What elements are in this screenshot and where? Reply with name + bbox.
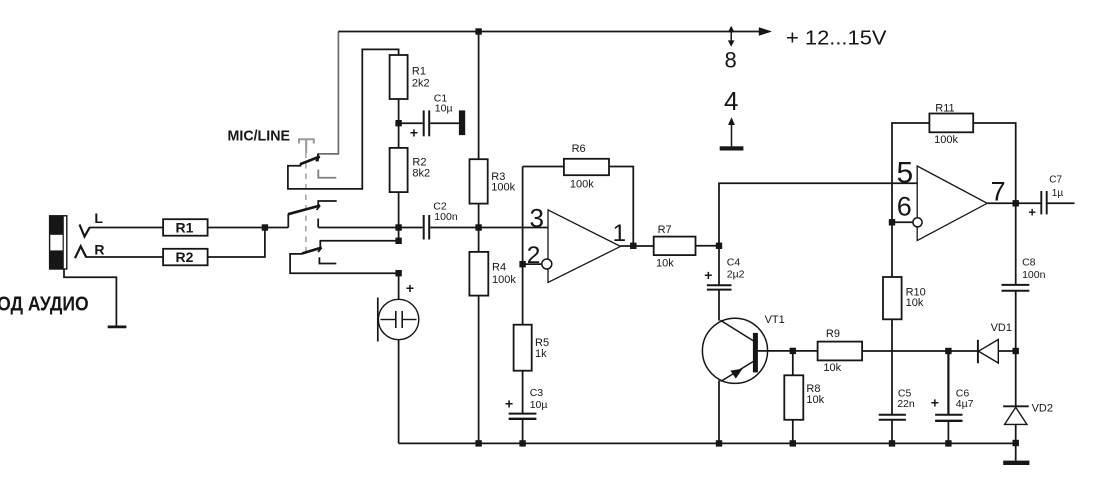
wire C4 to VT1 collector (718, 290, 720, 321)
svg-text:VD1: VD1 (991, 322, 1012, 334)
svg-text:10k: 10k (656, 257, 674, 269)
resistor R7 10k (654, 224, 696, 269)
resistor R10 10k (883, 222, 926, 319)
svg-text:+: + (1028, 204, 1036, 219)
svg-text:R7: R7 (658, 224, 672, 236)
switch SA1.2 (middle) upper throw stub (open) (318, 201, 337, 206)
switch SA1.2 arm (288, 206, 320, 215)
switch SA1 mechanical link (dashed) (305, 142, 307, 252)
svg-text:R5: R5 (535, 337, 549, 349)
resistor R6 100k feedback (523, 143, 634, 246)
node rail C3 (519, 440, 525, 446)
pin 8 supply arrow (725, 26, 737, 73)
node pin6 junction (889, 219, 895, 225)
svg-text:R6: R6 (572, 143, 586, 155)
switch SA1.1 arm (300, 156, 320, 164)
resistor R11 100k feedback (892, 102, 1016, 222)
capacitor C8 100n (1002, 257, 1046, 291)
node C2 junction (395, 224, 401, 230)
svg-text:+: + (406, 280, 414, 296)
bubble inverting input U1.2 (913, 218, 922, 227)
svg-text:100k: 100k (934, 134, 958, 146)
node R2 bottom junction (395, 238, 401, 244)
svg-text:10µ: 10µ (530, 399, 548, 411)
switch SA1.3 pole path to mic node (290, 254, 399, 273)
node rail R4 (475, 440, 481, 446)
svg-text:10k: 10k (906, 297, 924, 309)
wire op-amp2 output (987, 202, 1041, 204)
svg-text:100k: 100k (491, 182, 515, 194)
wire R5 to C3 (522, 371, 524, 414)
ground (pin 4 bar) (720, 146, 744, 150)
switch SA1.1 (top, gray) contact wire to +V (318, 32, 339, 154)
node rail R8 (790, 440, 796, 446)
bubble inverting input U1.1 (542, 259, 552, 269)
svg-text:C3: C3 (530, 387, 544, 399)
node output U1.2 (1013, 200, 1019, 206)
wire pin 6 (892, 221, 913, 223)
resistor R4 100k (469, 228, 516, 296)
wire pin2 from R5 node (523, 263, 543, 265)
switch SA1.3 (bottom) upper throw to R2 node (320, 241, 398, 249)
svg-text:10k: 10k (823, 362, 841, 374)
switch SA1.2 lower throw stub (317, 219, 319, 228)
svg-text:7: 7 (991, 176, 1006, 206)
connector XS1 audio jack (49, 215, 67, 269)
wire C3 bottom lead (522, 419, 524, 444)
switch SA1 handle (299, 139, 314, 153)
switch SA1.1 contact stub (317, 154, 319, 162)
svg-text:R: R (94, 242, 104, 258)
pin 4 ground arrow (724, 86, 738, 146)
arrow +V supply (759, 27, 772, 36)
node rail C5 (889, 440, 895, 446)
switch SA1.1 pole path to R1 top (288, 49, 399, 189)
wire output to C8 (1015, 203, 1017, 285)
svg-text:C4: C4 (727, 256, 741, 268)
ground (bottom right bar) (1003, 461, 1029, 465)
wire C8 to VD1 node (1015, 291, 1017, 351)
wire VD2 bottom lead (1015, 424, 1017, 460)
svg-text:100k: 100k (570, 178, 594, 190)
wire mic bottom lead (398, 340, 400, 444)
svg-text:4µ7: 4µ7 (956, 398, 974, 410)
op-amp U1.2 triangle (917, 166, 987, 241)
node output U1.1 (630, 243, 636, 249)
capacitor C7 1u (1028, 174, 1074, 219)
wire VD1 node to VD2 (1015, 351, 1017, 406)
wire R10 to C5 (891, 319, 893, 414)
svg-text:R2: R2 (176, 249, 194, 265)
capacitor C2 100n (399, 201, 458, 240)
svg-text:VT1: VT1 (765, 314, 785, 326)
node R7-C4 (716, 243, 722, 249)
svg-text:R9: R9 (826, 328, 840, 340)
svg-text:100n: 100n (434, 211, 458, 223)
svg-text:8: 8 (725, 48, 737, 73)
node VD1-C8 (1013, 348, 1019, 354)
jack ground wire (64, 269, 116, 326)
svg-text:+: + (410, 125, 418, 141)
svg-text:3: 3 (530, 203, 544, 233)
svg-text:C8: C8 (1022, 257, 1036, 269)
node rail C6 (945, 440, 951, 446)
node rail-R3 (475, 28, 481, 34)
node rail VT1 emitter (716, 440, 722, 446)
zener diode VD2 (1003, 403, 1053, 425)
wire R1 out (208, 227, 289, 229)
wire R1 bottom lead (398, 99, 400, 148)
switch SA1.3 arm (302, 248, 322, 254)
node pin2 junction (519, 261, 525, 267)
svg-text:C7: C7 (1049, 174, 1062, 185)
capacitor C6 4u7 (931, 351, 974, 421)
wire R8 bottom lead (792, 420, 794, 444)
svg-text:1µ: 1µ (1052, 188, 1064, 199)
wire SA1.2 throw to C2 node (318, 227, 398, 229)
capacitor C4 2u2 (704, 246, 744, 290)
svg-text:2k2: 2k2 (412, 78, 430, 90)
wire feedback vertical to R5 (522, 167, 524, 325)
electret microphone BM1 (378, 273, 419, 341)
contact L (80, 225, 90, 237)
wire +V top rail (338, 31, 760, 33)
wire VT1 emitter lead (718, 380, 720, 443)
svg-text:+: + (704, 267, 712, 283)
svg-text:8k2: 8k2 (412, 167, 430, 179)
node R1-R2 junction (395, 120, 401, 126)
wire bottom common rail (399, 442, 1016, 444)
svg-text:+ 12...15V: + 12...15V (786, 27, 887, 50)
svg-text:100k: 100k (492, 274, 516, 286)
wire +V rail branch to R3 (478, 32, 480, 160)
svg-text:10µ: 10µ (435, 102, 453, 114)
wire R2 out up to L node (208, 228, 265, 258)
wire C6 bottom lead (947, 421, 949, 444)
svg-text:6: 6 (897, 192, 912, 222)
capacitor C1 10u (399, 93, 459, 141)
ground (jack) (108, 325, 127, 328)
svg-text:R1: R1 (412, 65, 426, 77)
node bottom rail end (1013, 440, 1019, 446)
wire R (86, 256, 163, 258)
svg-text:5: 5 (897, 156, 914, 189)
resistor R8 10k (784, 351, 824, 420)
wire op-amp1 output (621, 245, 654, 247)
resistor R2 8k2 (390, 148, 431, 192)
wire R4 bottom lead (478, 296, 480, 444)
wire up to pin 5 (719, 183, 917, 246)
svg-text:4: 4 (724, 86, 738, 116)
transistor VT1 (702, 314, 784, 384)
wire L (89, 227, 163, 229)
capacitor C5 22n (879, 387, 915, 419)
svg-text:R1: R1 (176, 220, 194, 236)
capacitor C3 10u (505, 387, 547, 419)
switch SA1.2 pole elbow (287, 214, 289, 228)
wire C5 bottom lead (891, 420, 893, 444)
node mic junction (395, 270, 401, 276)
switch SA1.1 open throw stub (318, 170, 336, 178)
wire R3 bottom lead (478, 204, 480, 228)
wire C2 to op-amp pin 3 (430, 227, 548, 229)
svg-text:2µ2: 2µ2 (727, 269, 745, 281)
wire R2 bottom lead (398, 192, 400, 241)
svg-text:1: 1 (613, 220, 627, 247)
resistor R3 100k (470, 159, 516, 203)
svg-text:VD2: VD2 (1032, 403, 1053, 415)
op-amp U1.1 triangle (548, 210, 621, 283)
resistor R2 (input mixer) (163, 249, 208, 265)
node pin3 wire R3/R4 (475, 224, 481, 230)
resistor R9 10k (818, 328, 863, 374)
node C6 tap (945, 348, 951, 354)
node mix junction (262, 224, 268, 230)
diode VD1 (978, 322, 1016, 364)
resistor R1 2k2 (390, 55, 430, 99)
svg-text:L: L (94, 210, 103, 226)
switch SA1.3 lower throw stub (open) (319, 257, 336, 263)
svg-text:R4: R4 (492, 262, 506, 274)
svg-text:+: + (505, 396, 513, 412)
wire R9 to VD1 node (862, 350, 978, 352)
svg-text:10k: 10k (806, 394, 824, 406)
resistor R5 1k (514, 325, 549, 371)
svg-text:1k: 1k (535, 348, 547, 360)
ground (C1 bar) (459, 110, 465, 135)
node base-R8 (790, 348, 796, 354)
contact R (75, 246, 86, 258)
svg-text:R11: R11 (935, 102, 954, 114)
svg-text:22n: 22n (897, 398, 915, 410)
wire R7 to C4 node (696, 245, 720, 247)
svg-text:100n: 100n (1022, 269, 1046, 281)
wire VT1 base (758, 350, 818, 352)
svg-text:ВХОД АУДИО: ВХОД АУДИО (0, 294, 89, 316)
svg-text:MIC/LINE: MIC/LINE (228, 128, 291, 145)
svg-text:+: + (931, 395, 939, 411)
resistor R1 (input mixer) (163, 219, 208, 236)
